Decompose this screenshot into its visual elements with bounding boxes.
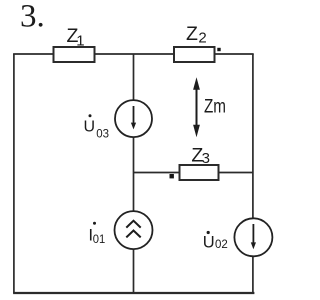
svg-text:01: 01 [93, 232, 106, 246]
mutual coupling arrow Zm [193, 77, 200, 137]
wire bottom horizontal [13, 292, 254, 294]
voltage source U02 [234, 218, 272, 256]
voltage source U03 [115, 100, 152, 137]
svg-text:2: 2 [198, 30, 206, 47]
label I01 [88, 222, 105, 246]
label Z1 [67, 25, 85, 50]
wire right vertical [252, 54, 254, 293]
svg-text:3.: 3. [20, 0, 45, 35]
resistor Z3 [180, 165, 219, 180]
svg-text:3: 3 [202, 150, 210, 167]
svg-text:1: 1 [76, 33, 84, 50]
wire top horizontal [13, 53, 254, 55]
polarity dot for Z2 [217, 48, 220, 51]
wire left vertical [13, 54, 15, 293]
svg-text:03: 03 [96, 128, 109, 140]
resistor Z2 [174, 47, 215, 62]
svg-text:Zm: Zm [204, 96, 226, 118]
label U02 [203, 231, 228, 251]
svg-text:02: 02 [215, 239, 228, 251]
polarity dot for Z3 [170, 174, 174, 178]
label Z2 [186, 23, 207, 47]
current source I01 [115, 211, 153, 249]
label U03 [84, 114, 109, 140]
wire middle vertical [133, 54, 135, 293]
svg-text:Z: Z [186, 23, 198, 45]
resistor Z1 [54, 47, 95, 62]
label Z3 [191, 144, 210, 167]
wire Z3 branch horizontal [134, 172, 253, 174]
svg-text:U: U [84, 119, 96, 136]
svg-text:U: U [203, 233, 215, 251]
